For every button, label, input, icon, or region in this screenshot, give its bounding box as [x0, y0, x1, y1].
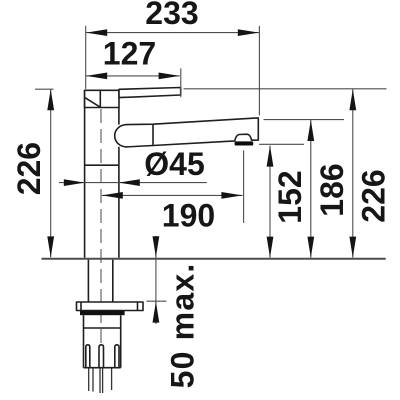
mounting washer / horseshoe plate	[77, 302, 144, 311]
spout (pull-out nozzle)	[115, 118, 259, 147]
svg-text:233: 233	[145, 0, 198, 31]
svg-text:50 max.: 50 max.	[165, 263, 201, 389]
ext line spout tip	[258, 26, 260, 116]
dim 226 right	[352, 89, 354, 257]
adapter piece	[84, 315, 121, 328]
ext line outlet center	[243, 150, 245, 223]
svg-text:226: 226	[355, 169, 391, 222]
dim Ø45	[59, 182, 207, 184]
svg-text:186: 186	[314, 163, 350, 216]
dim 190	[102, 194, 243, 196]
ext line spout top	[264, 119, 345, 121]
dim 152	[269, 146, 271, 258]
dim 50 max	[155, 236, 157, 324]
dim 226 left	[50, 89, 52, 257]
svg-text:127: 127	[103, 35, 156, 71]
dim 233 line	[86, 32, 259, 34]
spout joint line	[152, 124, 154, 145]
ext line lever tip	[180, 68, 182, 97]
svg-text:152: 152	[272, 170, 308, 223]
ref line tap top	[184, 88, 387, 90]
centerline (dashed axis of tap)	[100, 109, 102, 344]
tap body (vertical column)	[85, 90, 119, 258]
lever handle	[119, 88, 181, 98]
svg-text:Ø45: Ø45	[144, 146, 204, 182]
connection hoses	[89, 369, 112, 394]
svg-text:226: 226	[11, 142, 47, 195]
shank below worktop	[88, 260, 112, 302]
ext line outlet bottom	[259, 143, 304, 145]
ext line left edge	[85, 26, 87, 89]
fixing nut with ribs	[84, 328, 121, 369]
dim 127 line	[86, 75, 180, 77]
svg-text:190: 190	[162, 197, 215, 233]
rubber seal (black bar)	[80, 311, 125, 315]
dim 186	[310, 120, 312, 258]
aerator outlet (black)	[235, 141, 254, 145]
worktop line	[42, 258, 386, 260]
cartridge head box	[85, 90, 119, 107]
